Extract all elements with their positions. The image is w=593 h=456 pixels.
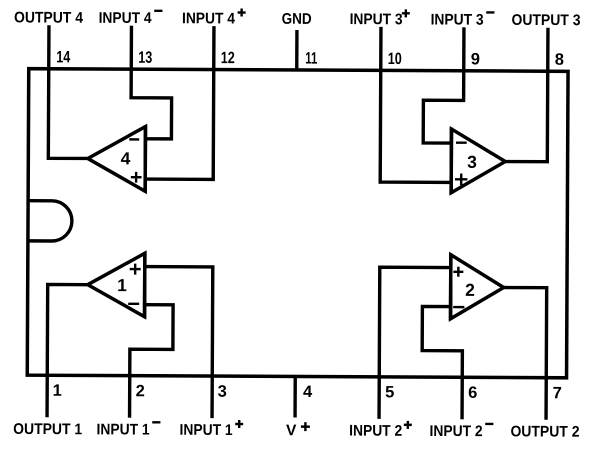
op-amp U4 flat side bbox=[143, 125, 147, 192]
svg-text:INPUT 2: INPUT 2 bbox=[430, 423, 483, 440]
wire pin 7 to U2 output bbox=[503, 288, 547, 420]
svg-text:10: 10 bbox=[388, 50, 402, 68]
wire pin 2 to U1 inverting input bbox=[130, 305, 174, 418]
svg-text:INPUT 1: INPUT 1 bbox=[180, 422, 233, 439]
svg-text:8: 8 bbox=[555, 51, 564, 69]
svg-text:3: 3 bbox=[218, 383, 227, 401]
op-amp U1 plus sign bbox=[130, 264, 141, 275]
op-amp U2 minus sign bbox=[453, 306, 464, 308]
svg-text:V: V bbox=[286, 422, 297, 439]
wire pin 6 to U2 inverting input bbox=[422, 306, 463, 419]
wire pin 10 to U3 non-inverting input bbox=[380, 27, 451, 183]
op-amp U1 triangle bbox=[88, 253, 145, 317]
wire pin 9 to U3 inverting input bbox=[423, 27, 464, 143]
wire pin 5 to U2 non-inverting input bbox=[379, 267, 450, 419]
notch (pin-1 orientation mark) bbox=[28, 201, 72, 241]
op-amp U3 flat side bbox=[449, 128, 453, 194]
op-amp U4 minus sign bbox=[129, 138, 139, 140]
svg-text:11: 11 bbox=[305, 50, 317, 68]
superscript minus of INPUT 2- bbox=[485, 423, 493, 425]
svg-text:GND: GND bbox=[282, 11, 312, 28]
svg-text:OUTPUT 1: OUTPUT 1 bbox=[13, 421, 82, 438]
superscript plus of V+ bbox=[301, 422, 310, 431]
svg-text:9: 9 bbox=[471, 50, 480, 68]
svg-text:4: 4 bbox=[303, 383, 313, 401]
op-amp U4 triangle bbox=[88, 126, 146, 191]
op-amp U4 plus sign bbox=[131, 172, 142, 183]
svg-text:1: 1 bbox=[53, 382, 62, 400]
svg-text:7: 7 bbox=[553, 384, 562, 402]
superscript plus of INPUT 4+ bbox=[238, 9, 246, 17]
wire pin 12 to U4 non-inverting input bbox=[146, 26, 214, 180]
svg-text:INPUT 2: INPUT 2 bbox=[349, 423, 402, 440]
op-amp U3 triangle bbox=[451, 129, 505, 193]
superscript minus of INPUT 3- bbox=[486, 11, 494, 13]
svg-text:OUTPUT 2: OUTPUT 2 bbox=[510, 423, 579, 440]
svg-text:5: 5 bbox=[385, 383, 394, 401]
pin 4 V+ stub wire bbox=[293, 376, 297, 417]
svg-text:INPUT 3: INPUT 3 bbox=[431, 11, 484, 28]
svg-text:3: 3 bbox=[467, 152, 477, 172]
wire pin 8 to U3 output bbox=[506, 28, 548, 162]
svg-text:INPUT 3: INPUT 3 bbox=[350, 11, 403, 28]
op-amp U2 triangle bbox=[451, 255, 504, 319]
svg-text:INPUT 1: INPUT 1 bbox=[97, 421, 150, 438]
svg-text:2: 2 bbox=[465, 280, 475, 300]
svg-text:12: 12 bbox=[221, 49, 235, 67]
wire pin 1 to U1 output bbox=[47, 284, 87, 417]
superscript minus of INPUT 4- bbox=[154, 10, 162, 12]
svg-text:14: 14 bbox=[56, 48, 71, 66]
op-amp U1 flat side bbox=[143, 252, 147, 318]
pin 11 GND stub wire bbox=[295, 30, 299, 70]
superscript plus of INPUT 3+ bbox=[402, 9, 410, 17]
op-amp U1 minus sign bbox=[128, 303, 139, 305]
op-amp U2 plus sign bbox=[453, 267, 463, 277]
svg-text:OUTPUT 3: OUTPUT 3 bbox=[511, 12, 580, 29]
IC body rectangle bbox=[27, 69, 568, 378]
op-amp U2 flat side bbox=[449, 253, 453, 319]
wire pin 14 to U4 output bbox=[48, 25, 88, 158]
op-amp U3 plus sign bbox=[455, 173, 467, 185]
svg-text:13: 13 bbox=[138, 49, 152, 67]
svg-text:2: 2 bbox=[136, 382, 145, 400]
svg-text:INPUT 4: INPUT 4 bbox=[182, 10, 235, 27]
svg-text:1: 1 bbox=[117, 275, 127, 295]
superscript plus of INPUT 1+ bbox=[235, 420, 243, 428]
svg-text:4: 4 bbox=[121, 148, 131, 168]
superscript minus of INPUT 1- bbox=[152, 421, 160, 423]
svg-text:INPUT 4: INPUT 4 bbox=[99, 10, 152, 27]
svg-text:6: 6 bbox=[468, 384, 477, 402]
wire pin 13 to U4 inverting input bbox=[131, 26, 172, 139]
svg-text:OUTPUT 4: OUTPUT 4 bbox=[14, 9, 83, 26]
wire pin 3 to U1 non-inverting input bbox=[145, 267, 213, 419]
superscript plus of INPUT 2+ bbox=[404, 421, 412, 429]
op-amp U3 minus sign bbox=[456, 141, 467, 143]
